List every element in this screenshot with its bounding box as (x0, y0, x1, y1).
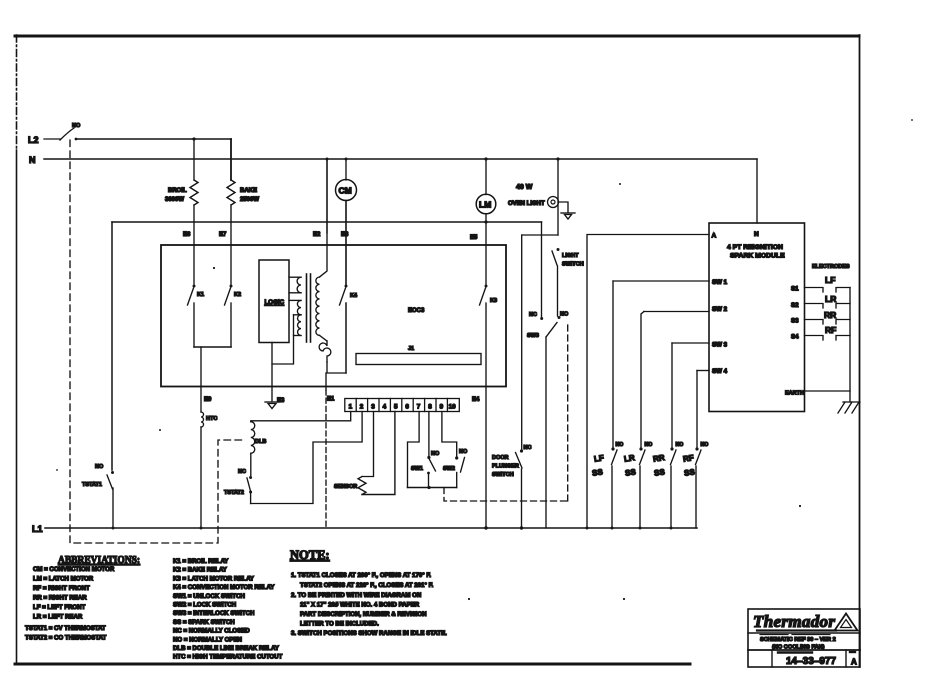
logo Thermador (753, 612, 858, 635)
spark switch RR SS (652, 343, 683, 528)
wire E5 (LM to K3) (470, 214, 488, 284)
svg-text:SW2: SW2 (443, 466, 455, 472)
note title (290, 548, 330, 562)
svg-text:NO: NO (72, 123, 81, 129)
svg-text:NOTE:: NOTE: (290, 548, 330, 562)
scan specks (56, 119, 913, 600)
pin EARTH (785, 391, 850, 403)
svg-text:SENSOR: SENSOR (334, 484, 357, 490)
wire door plunger drop (521, 235, 523, 449)
svg-text:TSTAT2 OPENS AT 226° F., CLOSE: TSTAT2 OPENS AT 226° F., CLOSES AT 201° … (300, 582, 434, 589)
svg-text:NO: NO (645, 442, 653, 448)
svg-text:Thermador: Thermador (753, 612, 835, 631)
svg-text:NO: NO (701, 442, 709, 448)
svg-text:LM = LATCH MOTOR: LM = LATCH MOTOR (33, 576, 94, 583)
wire pin1 to DLB (251, 412, 351, 422)
spark switch LR SS (623, 312, 652, 529)
svg-text:2: 2 (360, 404, 364, 411)
thermal cutout on secondary (319, 341, 331, 362)
svg-text:LM: LM (479, 200, 491, 210)
svg-text:SW3: SW3 (527, 333, 539, 339)
electrode LR (805, 294, 851, 308)
svg-text:SW 1: SW 1 (712, 279, 728, 286)
sensor loop pins 3-5 (334, 412, 395, 495)
svg-text:TSTAT1 = CV THERMOSTAT: TSTAT1 = CV THERMOSTAT (25, 625, 106, 632)
abbreviations column 1 (25, 566, 115, 642)
svg-text:PLUNGER: PLUNGER (492, 464, 519, 470)
svg-text:CM = CONVECTION MOTOR: CM = CONVECTION MOTOR (33, 566, 115, 573)
svg-text:TSTAT1: TSTAT1 (82, 482, 102, 488)
svg-text:SPARK MODULE: SPARK MODULE (730, 253, 785, 260)
svg-text:SW 3: SW 3 (712, 342, 728, 349)
svg-text:SS: SS (683, 467, 696, 478)
svg-text:SW3 = INTERLOCK SWITCH: SW3 = INTERLOCK SWITCH (173, 610, 254, 617)
svg-text:NO: NO (676, 442, 684, 448)
svg-text:NO: NO (431, 451, 440, 457)
label electrodes (812, 264, 850, 270)
coil DLB double line break relay (251, 422, 267, 476)
svg-text:LR: LR (623, 453, 635, 464)
svg-text:BAKE: BAKE (240, 188, 257, 194)
wire light to door drop (522, 234, 558, 236)
switch SW3 interlock (527, 312, 569, 529)
pin numbers (349, 404, 457, 411)
control board EOC3 box (161, 245, 506, 387)
svg-text:NC: NC (524, 445, 532, 451)
svg-text:SS: SS (653, 467, 666, 478)
transformer T1 primary (289, 277, 301, 335)
electrode RF (805, 325, 851, 340)
svg-text:PART DESCRIPTION, NUMBER & REV: PART DESCRIPTION, NUMBER & REVISION (300, 611, 427, 618)
svg-text:SS: SS (624, 467, 637, 478)
wire L1 rail (45, 526, 697, 529)
svg-text:DLB = DOUBLE LINE BREAK RELAY: DLB = DOUBLE LINE BREAK RELAY (173, 645, 279, 652)
wire pin7 to switch common (408, 412, 420, 488)
thermostat TSTAT2 NC (224, 469, 252, 504)
svg-text:(NO COOLING FAN): (NO COOLING FAN) (772, 645, 825, 651)
wire K1-K2 common to E9 (194, 347, 231, 412)
relay contact K4 (340, 285, 358, 374)
svg-text:S1: S1 (791, 286, 799, 293)
svg-text:TSTAT2: TSTAT2 (224, 490, 244, 496)
wire E8 (CM to K4) (341, 201, 349, 285)
lamp oven light 40W (508, 159, 559, 235)
wire E7 (bake to K2) (219, 222, 231, 284)
svg-text:L1: L1 (32, 524, 43, 534)
svg-text:1. TSTAT1 CLOSES AT 200° F., O: 1. TSTAT1 CLOSES AT 200° F., OPENS AT 17… (291, 572, 431, 579)
svg-text:ELECTRODES: ELECTRODES (812, 264, 850, 270)
relay contact K2 (225, 285, 242, 348)
svg-text:2. TO BE PRINTED WITH WIRE DIA: 2. TO BE PRINTED WITH WIRE DIAGRAM ON (291, 592, 421, 599)
pin SW2 (644, 306, 728, 313)
svg-text:SW1: SW1 (411, 466, 423, 472)
svg-text:S3: S3 (791, 318, 799, 325)
svg-text:J1: J1 (408, 346, 414, 352)
switch light (552, 248, 584, 316)
svg-text:NO: NO (560, 312, 569, 318)
svg-text:K4 = CONVECTION MOTOR RELAY: K4 = CONVECTION MOTOR RELAY (173, 584, 274, 591)
note text (291, 572, 447, 637)
abbreviations column 2 (173, 558, 283, 661)
mech link dashed SW to door plunger (444, 488, 568, 502)
svg-text:NO: NO (95, 464, 104, 470)
switch door plunger NC (492, 445, 531, 528)
wire E6 (broil to K1) (183, 222, 194, 284)
svg-text:LR = LEFT REAR: LR = LEFT REAR (33, 614, 83, 621)
svg-text:10: 10 (449, 404, 457, 411)
svg-text:N: N (754, 231, 759, 238)
ground E3 (265, 343, 285, 409)
svg-text:S2: S2 (791, 302, 799, 309)
svg-text:NO: NO (616, 442, 624, 448)
mech link dashed door lock (70, 140, 246, 543)
motor CM (336, 159, 357, 201)
resistor BROIL 3600W (165, 139, 198, 222)
svg-text:CM: CM (339, 186, 352, 196)
pin SW3 (672, 342, 728, 349)
svg-text:S4: S4 (791, 334, 799, 341)
svg-text:NC: NC (238, 469, 246, 475)
svg-text:RR: RR (824, 310, 836, 320)
svg-text:DLB: DLB (255, 439, 266, 445)
ground earth symbol (838, 402, 860, 413)
svg-text:LOGIC: LOGIC (265, 299, 285, 306)
svg-text:14–33–977: 14–33–977 (786, 656, 836, 667)
svg-text:HTC = HIGH TEMPERATURE CUTOUT: HTC = HIGH TEMPERATURE CUTOUT (173, 654, 283, 661)
svg-text:ABBREVIATIONS:: ABBREVIATIONS: (58, 554, 140, 566)
svg-text:E5: E5 (470, 235, 478, 241)
coil HTC high temperature cutout (201, 412, 217, 528)
spark module U1 box (709, 223, 805, 412)
wire logic primary return (272, 315, 294, 364)
wire L2 rail (76, 137, 231, 140)
svg-text:SS: SS (591, 467, 604, 478)
svg-text:1: 1 (349, 404, 353, 411)
relay contact K1 (188, 285, 205, 348)
svg-text:EARTH: EARTH (785, 391, 804, 397)
wire A feed from L1 (587, 235, 709, 529)
svg-text:HTC: HTC (206, 416, 217, 422)
svg-text:E3: E3 (277, 398, 285, 404)
wire electrode earth bus (849, 288, 851, 392)
wire N rail (44, 157, 757, 160)
logic box (259, 260, 289, 343)
svg-text:SCHEMATIC REF 30 – VER 2: SCHEMATIC REF 30 – VER 2 (760, 637, 836, 643)
svg-text:LF = LEFT FRONT: LF = LEFT FRONT (33, 604, 86, 611)
svg-text:E7: E7 (219, 232, 227, 238)
svg-text:LETTER TO BE INCLUDED.: LETTER TO BE INCLUDED. (300, 621, 379, 628)
svg-text:N: N (29, 155, 36, 165)
ground chassis at oven light (559, 202, 576, 219)
svg-text:LR: LR (825, 294, 836, 304)
pin SW1 (613, 279, 728, 286)
svg-text:E1: E1 (327, 397, 335, 403)
relay contact K3 (480, 285, 498, 529)
svg-text:E2: E2 (313, 232, 321, 238)
svg-text:K3 = LATCH MOTOR RELAY: K3 = LATCH MOTOR RELAY (173, 575, 254, 582)
resistor BAKE 2500W (227, 139, 259, 222)
svg-text:7: 7 (417, 404, 421, 411)
pin N of module (754, 159, 759, 238)
motor LM (476, 159, 496, 214)
svg-text:SWITCH: SWITCH (492, 472, 514, 478)
svg-text:LIGHT: LIGHT (562, 253, 579, 259)
svg-text:K2 = BAKE RELAY: K2 = BAKE RELAY (173, 567, 227, 574)
svg-text:RF: RF (682, 453, 694, 464)
electrode LF (805, 275, 851, 292)
svg-text:LF: LF (593, 453, 604, 463)
wire TSTAT2 to pin2 (251, 412, 363, 504)
svg-text:4 PT REIGNITION: 4 PT REIGNITION (727, 244, 783, 251)
svg-text:NC = NORMALLY CLOSED: NC = NORMALLY CLOSED (173, 628, 250, 635)
title block part number (778, 652, 857, 667)
svg-text:SW2 = LOCK SWITCH: SW2 = LOCK SWITCH (173, 602, 236, 609)
svg-text:A: A (851, 658, 857, 667)
wire TSTAT1 drop (111, 222, 113, 470)
svg-text:2500W: 2500W (240, 197, 259, 203)
wire E1 dashed to L1 (326, 373, 335, 528)
svg-text:SW 2: SW 2 (712, 306, 728, 313)
svg-text:E4: E4 (472, 397, 480, 403)
thermostat TSTAT1 NO (82, 464, 114, 528)
svg-text:LF: LF (825, 275, 835, 285)
pin A of module (712, 233, 717, 240)
svg-text:RF = RIGHT FRONT: RF = RIGHT FRONT (33, 585, 90, 592)
svg-text:RF: RF (825, 325, 836, 335)
svg-text:RR: RR (652, 453, 665, 464)
svg-text:3: 3 (371, 404, 375, 411)
svg-text:SW1 = UNLOCK SWITCH: SW1 = UNLOCK SWITCH (173, 593, 245, 600)
mech link dashed SW3 (567, 325, 569, 501)
svg-text:A: A (712, 233, 717, 240)
transformer T1 core (307, 274, 311, 342)
wire E2 (N to transformer) (313, 159, 327, 238)
wire switch common bar (408, 486, 457, 489)
abbreviations title (58, 554, 140, 566)
switch L2 door-lock NO (60, 123, 81, 140)
svg-text:3600W: 3600W (165, 197, 184, 203)
svg-text:E8: E8 (341, 232, 349, 238)
svg-text:DOOR: DOOR (492, 455, 509, 461)
svg-text:K1 = BROIL RELAY: K1 = BROIL RELAY (173, 558, 228, 565)
connector J1 strip inside board (356, 346, 481, 365)
wire secondary to K4 line (327, 362, 346, 373)
svg-text:EOC3: EOC3 (408, 308, 425, 314)
svg-text:SW 4: SW 4 (712, 368, 728, 375)
svg-text:40 W: 40 W (516, 184, 533, 191)
svg-text:E9: E9 (204, 397, 212, 403)
wire E9 label (204, 397, 212, 403)
switch SW2 lock NO (442, 412, 468, 488)
title block frame (748, 609, 860, 667)
svg-text:L2: L2 (28, 135, 39, 145)
svg-text:6: 6 (405, 404, 409, 411)
svg-text:9: 9 (440, 404, 444, 411)
svg-text:RR = RIGHT REAR: RR = RIGHT REAR (33, 595, 87, 602)
svg-text:TSTAT2 = CO THERMOSTAT: TSTAT2 = CO THERMOSTAT (25, 635, 107, 642)
title block description (760, 637, 836, 651)
connector strip pins 1-10 (345, 399, 460, 412)
svg-text:K4: K4 (350, 293, 358, 299)
svg-text:E6: E6 (183, 232, 191, 238)
svg-text:11" X 17" 20# WHITE NO. 4 BOND: 11" X 17" 20# WHITE NO. 4 BOND PAPER (300, 602, 420, 609)
svg-text:SS = SPARK SWITCH: SS = SPARK SWITCH (173, 619, 235, 626)
svg-text:K3: K3 (490, 298, 497, 304)
svg-text:NO = NORMALLY OPEN: NO = NORMALLY OPEN (173, 636, 242, 643)
svg-text:4: 4 (383, 404, 387, 411)
svg-text:5: 5 (394, 404, 398, 411)
wire A latch feed (y222) (112, 221, 542, 223)
svg-text:SWITCH: SWITCH (562, 262, 584, 268)
svg-text:NC: NC (529, 312, 537, 318)
transformer T1 secondary (316, 159, 327, 341)
svg-text:K2: K2 (234, 292, 241, 298)
electrode RR (805, 310, 851, 324)
spark switch RF SS (682, 371, 708, 529)
svg-text:3. SWITCH POSITIONS SHOW RANGE: 3. SWITCH POSITIONS SHOW RANGE IN IDLE S… (291, 630, 447, 637)
wire E4 label (472, 397, 480, 403)
spark switch LF SS (591, 281, 623, 528)
node N (29, 155, 36, 165)
node L2 (28, 135, 60, 145)
svg-text:BROIL: BROIL (168, 188, 187, 194)
svg-text:K1: K1 (197, 292, 204, 298)
svg-text:OVEN LIGHT: OVEN LIGHT (508, 201, 545, 207)
wire tap to SW3 NC (541, 222, 543, 317)
pin SW4 (697, 368, 728, 375)
svg-text:8: 8 (428, 404, 432, 411)
pins S1-S4 (791, 286, 799, 341)
node L1 (32, 524, 43, 534)
switch SW1 unlock NO (411, 412, 440, 488)
svg-text:NO: NO (459, 449, 468, 455)
